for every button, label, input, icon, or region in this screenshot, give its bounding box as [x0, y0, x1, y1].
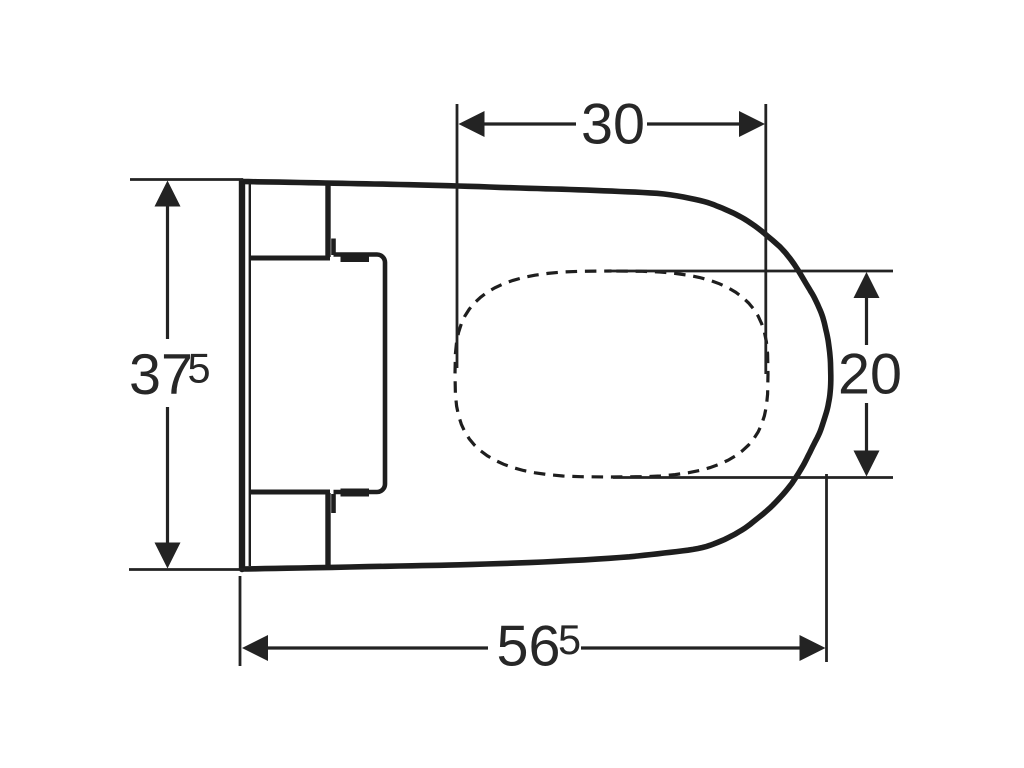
- dim 20: dimension line top segment: [865, 297, 868, 345]
- dim 30: arrowhead right: [739, 111, 765, 137]
- dim 20: arrowhead bottom: [854, 451, 880, 477]
- mounting plate (rounded right corners): [334, 255, 386, 493]
- svg-text:37: 37: [129, 343, 193, 407]
- dim 37.5: extension line bottom: [129, 568, 245, 571]
- dim 30: extension line left: [456, 104, 459, 368]
- fixing compartment divider, bottom: [325, 493, 330, 567]
- svg-text:20: 20: [838, 343, 902, 407]
- svg-text:30: 30: [581, 93, 645, 157]
- inner thin panel line along back edge: [249, 184, 251, 566]
- dim 30: extension line right: [764, 104, 767, 374]
- dim 56.5: arrowhead left: [242, 635, 268, 661]
- dim 20: extension line bottom: [613, 476, 893, 479]
- dim 56.5: arrowhead right: [800, 635, 826, 661]
- dim 56.5: extension line left: [239, 576, 242, 666]
- dim 20: extension line top: [609, 270, 893, 273]
- seat hinge mark, bottom: [341, 489, 370, 497]
- recess shelf line, top: [249, 256, 330, 261]
- dim 30: dimension line left segment: [483, 122, 576, 125]
- dim 20: dimension line bottom segment: [865, 403, 868, 451]
- dim 56.5: extension line right: [825, 474, 828, 662]
- fixing compartment divider, top: [325, 184, 330, 257]
- recess shelf line, bottom: [249, 490, 330, 495]
- dim 30: arrowhead left: [459, 111, 485, 137]
- seat hinge mark, top: [341, 254, 370, 262]
- dim 37.5: extension line top: [130, 178, 243, 181]
- dim 37.5: dimension line bottom segment: [166, 407, 169, 544]
- svg-text:5: 5: [558, 616, 581, 663]
- dim 37.5: arrowhead bottom: [155, 543, 181, 569]
- svg-text:5: 5: [188, 345, 211, 392]
- dim 56.5: dimension line left segment: [267, 646, 488, 649]
- bowl rim (dashed superellipse): [455, 271, 768, 477]
- dim 56.5: dimension line right segment: [581, 646, 801, 649]
- step jog line, bottom: [331, 494, 336, 513]
- dim 20: arrowhead top: [854, 272, 880, 298]
- dim 30: dimension line right segment: [647, 122, 741, 125]
- dim 37.5: arrowhead top: [155, 181, 181, 207]
- toilet body outline (top view D-shape): [242, 182, 831, 570]
- toilet back (left) edge: [239, 182, 245, 570]
- dim 37.5: dimension line top segment: [166, 205, 169, 339]
- svg-text:56: 56: [497, 615, 561, 679]
- step jog line, top: [331, 239, 336, 256]
